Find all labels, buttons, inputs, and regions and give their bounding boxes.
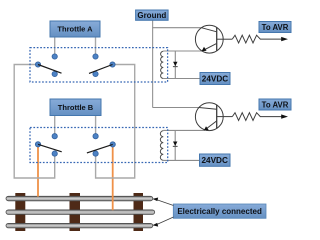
relay coil L2 [160, 131, 163, 161]
wire: throttle B box to left switch top throw [54, 116, 56, 134]
switch S2b pole node [110, 142, 115, 147]
rail 1 [6, 196, 153, 201]
switch S2a lever [38, 144, 62, 152]
relay coil L1 [161, 51, 164, 78]
svg-text:Ground: Ground [137, 11, 166, 20]
switch S2b lower throw node [93, 151, 98, 156]
switch S1b top throw node [93, 54, 98, 59]
relay B mechanical linkage dashed box [30, 128, 168, 163]
switch S2b top throw node [93, 134, 98, 139]
wire orange: relay B right pole to rail 2 [112, 147, 114, 211]
connector line to rail 1 [157, 200, 174, 206]
label box 24VDC 1 [200, 73, 230, 85]
relay coil L2 bottom wire to 24VDC [163, 159, 200, 161]
label box To AVR 2 [259, 99, 291, 110]
rail 2 [6, 210, 155, 215]
relay coil L1 top wire to U1 emitter [163, 50, 202, 52]
switch S2a top throw node [52, 134, 57, 139]
svg-text:24VDC: 24VDC [202, 75, 228, 84]
relay coil L2 top wire to U2 emitter [163, 129, 204, 131]
railroad tie 2 [70, 193, 81, 231]
switch S1a pole node [35, 62, 40, 67]
resistor R2 [232, 113, 281, 121]
switch S1b lower throw node [93, 71, 98, 76]
switch S1b pole node [110, 62, 115, 67]
label box Throttle A [50, 21, 100, 37]
label box 24VDC 2 [200, 154, 231, 166]
wire: throttle B box to right switch top throw [95, 116, 97, 134]
relay coil L1 bottom wire to 24VDC [163, 78, 200, 80]
svg-text:To AVR: To AVR [262, 101, 289, 110]
flyback diode D2 [173, 130, 178, 160]
railroad tie 3 [134, 193, 144, 231]
switch S1b lever [89, 65, 113, 74]
wire: ground to transistor U1 collector [153, 27, 202, 29]
svg-text:To AVR: To AVR [262, 23, 289, 32]
label box Throttle B [50, 99, 101, 116]
wire: throttle A box to left switch top throw [54, 37, 56, 54]
wire: switch A left pole wrap-around to switch B left lower throw [14, 65, 55, 179]
label box To AVR 1 [259, 22, 291, 33]
transistor U2 [195, 103, 232, 131]
arrow at rail 1 end [152, 198, 158, 202]
switch S1a lever [38, 65, 62, 74]
wire: ground bus vertical [152, 20, 154, 107]
wire: throttle A box to right switch top throw [95, 37, 97, 54]
relay A mechanical linkage dashed box [30, 48, 168, 82]
switch S1a top throw node [52, 54, 57, 59]
label box Electrically connected [173, 204, 266, 218]
rail 3 [6, 223, 153, 228]
transistor U1 [195, 25, 232, 53]
switch S1a lower throw node [52, 71, 57, 76]
arrow to AVR 2 [281, 114, 288, 118]
wire: switch A right pole wrap-around to switch B right lower throw [96, 65, 135, 179]
connector line to rail 3 [157, 217, 174, 225]
wire: ground to transistor U2 collector [153, 107, 199, 109]
svg-text:Throttle B: Throttle B [58, 103, 94, 112]
svg-text:Electrically connected: Electrically connected [177, 207, 262, 216]
label box Ground [136, 10, 169, 20]
wire orange: relay B left pole to rail 1 [37, 147, 39, 197]
switch S2a lower throw node [52, 151, 57, 156]
switch S2a pole node [35, 142, 40, 147]
svg-text:Throttle A: Throttle A [57, 25, 93, 34]
flyback diode D1 [173, 51, 178, 79]
resistor R1 [232, 35, 281, 43]
arrow to AVR 1 [281, 37, 288, 41]
railroad tie 1 [15, 193, 25, 231]
switch S2b lever [87, 144, 113, 153]
arrow at rail 3 end [152, 223, 158, 227]
svg-text:24VDC: 24VDC [201, 156, 227, 165]
